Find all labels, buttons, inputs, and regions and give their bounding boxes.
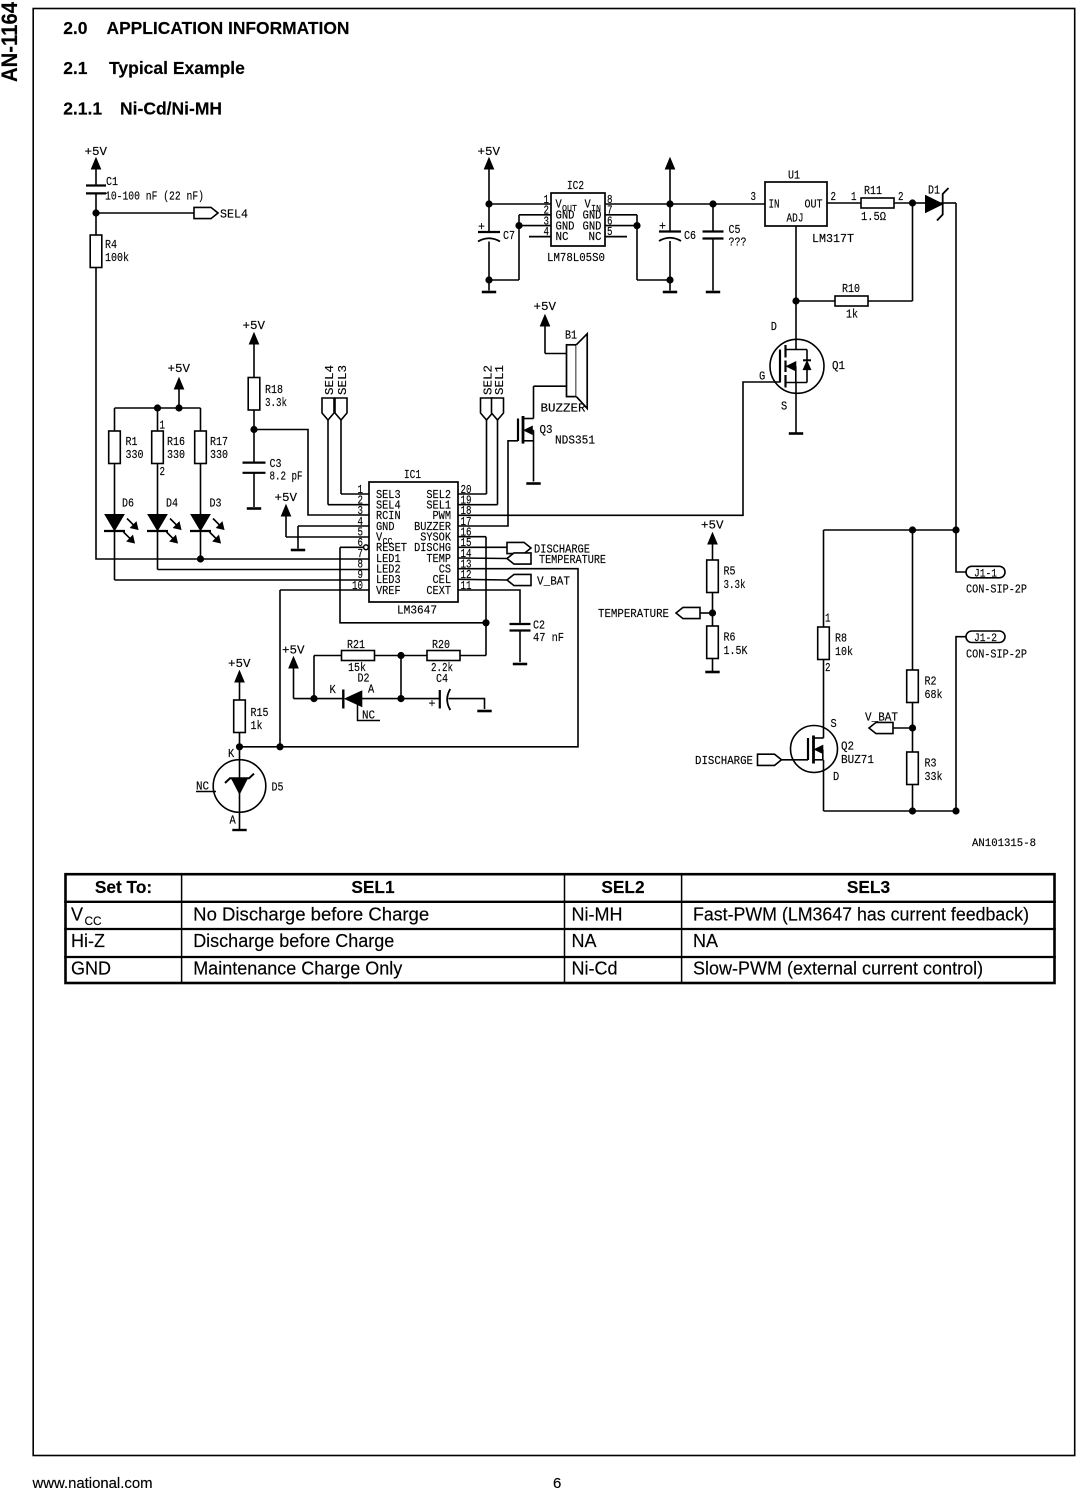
svg-text:330: 330 <box>210 448 228 462</box>
svg-text:C6: C6 <box>684 229 696 243</box>
svg-text:VREF: VREF <box>376 584 401 598</box>
svg-text:1k: 1k <box>846 308 858 322</box>
svg-text:1: 1 <box>851 190 857 204</box>
svg-text:TEMPERATURE: TEMPERATURE <box>539 553 606 567</box>
svg-text:SEL4: SEL4 <box>220 208 248 222</box>
svg-text:D6: D6 <box>122 497 134 511</box>
svg-text:ADJ: ADJ <box>787 212 804 226</box>
svg-text:Q3: Q3 <box>540 423 553 437</box>
svg-text:R21: R21 <box>347 638 365 652</box>
svg-text:Discharge before Charge: Discharge before Charge <box>193 931 394 951</box>
svg-text:SEL2: SEL2 <box>601 877 644 897</box>
svg-text:D: D <box>771 320 777 334</box>
svg-text:R15: R15 <box>251 706 269 720</box>
svg-text:NC: NC <box>362 708 375 722</box>
svg-text:Q1: Q1 <box>832 359 845 373</box>
svg-text:S: S <box>781 400 787 414</box>
svg-text:S: S <box>831 717 837 731</box>
svg-text:Hi-Z: Hi-Z <box>71 931 105 951</box>
svg-text:Q2: Q2 <box>841 740 854 754</box>
svg-text:J1-2: J1-2 <box>974 633 997 645</box>
svg-text:DISCHARGE: DISCHARGE <box>695 754 753 768</box>
svg-text:1: 1 <box>160 419 166 433</box>
svg-text:+: + <box>478 220 485 234</box>
svg-text:R2: R2 <box>925 675 937 689</box>
svg-text:V_BAT: V_BAT <box>865 711 898 725</box>
svg-text:V: V <box>71 904 83 924</box>
svg-text:Fast-PWM (LM3647 has current f: Fast-PWM (LM3647 has current feedback) <box>693 904 1029 924</box>
svg-text:IC1: IC1 <box>404 468 421 482</box>
svg-text:+5V: +5V <box>228 657 251 671</box>
svg-text:AN101315-8: AN101315-8 <box>972 838 1036 850</box>
svg-text:V_BAT: V_BAT <box>537 575 570 589</box>
svg-text:+5V: +5V <box>282 644 305 658</box>
svg-text:+5V: +5V <box>534 300 557 314</box>
svg-text:G: G <box>759 370 765 384</box>
svg-text:Slow-PWM (external current con: Slow-PWM (external current control) <box>693 958 983 978</box>
svg-text:1.5K: 1.5K <box>724 644 748 658</box>
svg-text:10-100 nF (22 nF): 10-100 nF (22 nF) <box>105 190 204 204</box>
svg-text:R6: R6 <box>724 631 736 645</box>
svg-text:SEL1: SEL1 <box>493 365 507 395</box>
svg-text:???: ??? <box>729 236 747 250</box>
svg-text:D3: D3 <box>210 497 222 511</box>
svg-text:R16: R16 <box>167 435 185 449</box>
svg-text:+5V: +5V <box>243 319 266 333</box>
svg-text:AN-1164: AN-1164 <box>0 2 22 82</box>
svg-text:R20: R20 <box>432 638 450 652</box>
svg-text:D1: D1 <box>928 184 940 198</box>
svg-text:3.3k: 3.3k <box>724 578 746 592</box>
svg-text:R4: R4 <box>105 238 117 252</box>
svg-text:K: K <box>228 747 235 761</box>
svg-text:10: 10 <box>352 579 363 593</box>
svg-text:CC: CC <box>85 914 103 928</box>
svg-text:1.5Ω: 1.5Ω <box>861 210 886 224</box>
svg-text:1k: 1k <box>251 719 263 733</box>
svg-text:C4: C4 <box>436 672 448 686</box>
svg-text:CEXT: CEXT <box>426 584 451 598</box>
svg-text:33k: 33k <box>925 770 943 784</box>
svg-text:NC: NC <box>589 230 602 244</box>
svg-text:A: A <box>230 814 237 828</box>
svg-text:+5V: +5V <box>85 145 108 159</box>
svg-text:SEL3: SEL3 <box>336 365 350 395</box>
svg-text:A: A <box>368 682 375 696</box>
svg-text:BUZZER: BUZZER <box>541 402 587 416</box>
svg-text:SEL1: SEL1 <box>351 877 395 897</box>
svg-text:47 nF: 47 nF <box>533 631 564 645</box>
svg-text:BUZ71: BUZ71 <box>841 753 874 767</box>
svg-text:330: 330 <box>167 448 185 462</box>
svg-text:R17: R17 <box>210 435 228 449</box>
svg-text:R18: R18 <box>265 383 283 397</box>
svg-text:APPLICATION INFORMATION: APPLICATION INFORMATION <box>107 18 350 38</box>
svg-text:+5V: +5V <box>275 491 298 505</box>
svg-text:NDS351: NDS351 <box>555 434 595 448</box>
svg-text:OUT: OUT <box>805 198 823 212</box>
svg-text:+5V: +5V <box>168 362 191 376</box>
svg-text:Ni-MH: Ni-MH <box>572 904 623 924</box>
svg-text:NC: NC <box>196 780 209 794</box>
svg-text:10k: 10k <box>835 645 853 659</box>
svg-text:Set To:: Set To: <box>95 877 152 897</box>
svg-text:2: 2 <box>831 190 837 204</box>
svg-text:CON-SIP-2P: CON-SIP-2P <box>966 582 1027 596</box>
svg-text:R3: R3 <box>925 757 937 771</box>
svg-text:U1: U1 <box>788 169 800 183</box>
svg-text:IN: IN <box>769 198 780 212</box>
svg-text:D: D <box>833 770 839 784</box>
svg-text:330: 330 <box>126 448 144 462</box>
svg-text:2: 2 <box>160 465 166 479</box>
svg-text:NC: NC <box>556 230 569 244</box>
svg-text:Typical Example: Typical Example <box>109 58 245 78</box>
svg-text:No Discharge before Charge: No Discharge before Charge <box>193 904 429 924</box>
svg-text:LM3647: LM3647 <box>397 604 437 618</box>
svg-text:2.1.1: 2.1.1 <box>63 99 102 119</box>
svg-text:Ni-Cd/Ni-MH: Ni-Cd/Ni-MH <box>120 99 222 119</box>
svg-text:2.1: 2.1 <box>63 58 88 78</box>
svg-text:2.0: 2.0 <box>63 18 88 38</box>
svg-text:R5: R5 <box>724 565 736 579</box>
svg-text:C7: C7 <box>503 229 515 243</box>
svg-text:LM317T: LM317T <box>812 232 854 246</box>
svg-text:Ni-Cd: Ni-Cd <box>572 958 618 978</box>
svg-text:R8: R8 <box>835 632 847 646</box>
svg-text:IC2: IC2 <box>567 179 584 193</box>
svg-text:6: 6 <box>553 1476 561 1488</box>
svg-text:Maintenance Charge Only: Maintenance Charge Only <box>193 958 402 978</box>
svg-text:J1-1: J1-1 <box>974 568 997 580</box>
svg-text:NA: NA <box>572 931 597 951</box>
svg-text:68k: 68k <box>925 688 943 702</box>
svg-text:100k: 100k <box>105 251 129 265</box>
svg-text:8.2 pF: 8.2 pF <box>270 470 303 484</box>
svg-text:www.national.com: www.national.com <box>32 1476 153 1488</box>
svg-text:K: K <box>330 683 337 697</box>
svg-text:LM78L05S0: LM78L05S0 <box>547 251 605 265</box>
svg-text:+5V: +5V <box>701 519 724 533</box>
svg-text:SEL4: SEL4 <box>323 365 337 395</box>
svg-text:R10: R10 <box>842 282 860 296</box>
svg-text:+5V: +5V <box>478 145 501 159</box>
svg-text:D5: D5 <box>272 781 284 795</box>
svg-text:+: + <box>659 220 666 234</box>
svg-text:1: 1 <box>825 612 831 626</box>
svg-text:NA: NA <box>693 931 718 951</box>
svg-text:R11: R11 <box>864 184 882 198</box>
svg-text:3: 3 <box>751 190 757 204</box>
svg-text:3.3k: 3.3k <box>265 396 287 410</box>
svg-text:+: + <box>429 697 436 711</box>
svg-text:GND: GND <box>71 958 111 978</box>
svg-text:CON-SIP-2P: CON-SIP-2P <box>966 647 1027 661</box>
svg-text:2: 2 <box>898 190 904 204</box>
svg-text:R1: R1 <box>126 435 138 449</box>
svg-text:TEMPERATURE: TEMPERATURE <box>598 607 669 621</box>
svg-text:B1: B1 <box>565 329 577 343</box>
svg-text:C1: C1 <box>106 175 118 189</box>
svg-text:2: 2 <box>825 661 831 675</box>
svg-text:D4: D4 <box>166 497 178 511</box>
svg-text:SEL3: SEL3 <box>847 877 890 897</box>
